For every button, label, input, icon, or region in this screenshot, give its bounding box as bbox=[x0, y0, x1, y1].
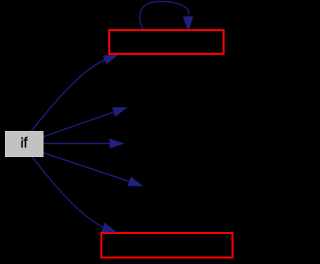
node N1 (top callee box, red outline) bbox=[109, 30, 223, 54]
arrowhead of E3 bbox=[110, 139, 125, 149]
wire E2: edge if -> hidden node (upper straight) bbox=[44, 112, 114, 137]
arrowhead of E5 bbox=[101, 223, 117, 233]
node if (current node, grey box) bbox=[6, 132, 44, 157]
arrowhead of E1 bbox=[103, 55, 119, 65]
arrowhead of self-loop bbox=[183, 16, 193, 32]
wire E3: edge if -> hidden node (middle straight) bbox=[44, 143, 111, 145]
arrowhead of E2 bbox=[112, 107, 128, 117]
wire E5: edge if -> N2 (curved) bbox=[32, 157, 103, 228]
arrowhead of E4 bbox=[128, 177, 144, 187]
wire E1: edge if -> N1 (curved) bbox=[31, 60, 105, 131]
wire self-loop on node N1 bbox=[140, 1, 189, 30]
label "if" (drawn as vector glyphs) bbox=[21, 137, 27, 148]
node N2 (bottom callee box, red outline) bbox=[101, 233, 232, 258]
wire E4: edge if -> hidden node (lower straight) bbox=[44, 153, 130, 182]
